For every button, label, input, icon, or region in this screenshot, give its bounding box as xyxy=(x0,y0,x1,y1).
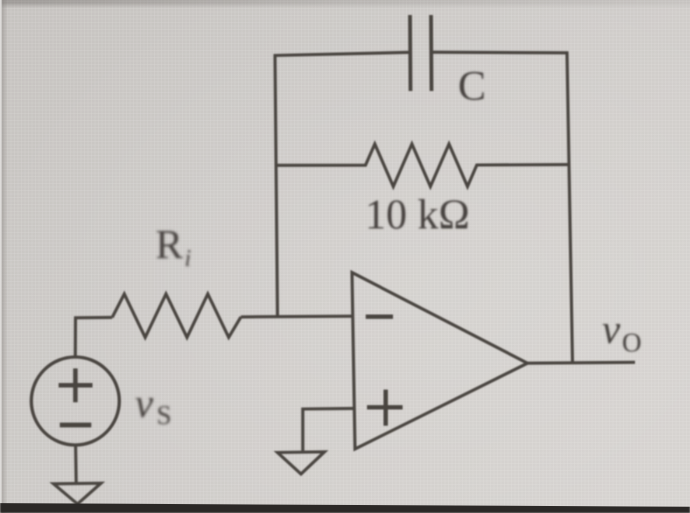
svg-text:O: O xyxy=(622,328,642,358)
wire: ground up and over to non-inverting input xyxy=(303,408,355,450)
svg-text:10 kΩ: 10 kΩ xyxy=(365,193,470,239)
svg-text:v: v xyxy=(135,380,154,426)
label R_i xyxy=(156,221,192,272)
op-amp non-inverting input marker (plus) xyxy=(367,390,403,426)
wire: left feedback branch, node A up to top-left corner xyxy=(275,56,278,317)
vS minus marker xyxy=(60,423,92,428)
wire: vS top to input wire corner xyxy=(74,319,77,358)
ground under vS xyxy=(54,483,102,504)
wire: right feedback branch (vertical) xyxy=(567,53,573,363)
wire: vS bottom to ground xyxy=(74,446,78,484)
resistor R_i (input) xyxy=(112,294,241,337)
label 10 kΩ xyxy=(365,193,470,239)
svg-text:i: i xyxy=(185,246,192,272)
svg-text:S: S xyxy=(157,400,172,430)
wire: R_i to inverting input node A xyxy=(241,315,354,319)
op-amp U1 (triangle) xyxy=(352,273,528,450)
resistor R2 10 kOhm (feedback) with leads xyxy=(277,144,570,187)
voltage source vS (circle) xyxy=(31,357,119,445)
ground at non-inverting input xyxy=(278,452,325,474)
vS plus marker xyxy=(59,368,93,402)
op-amp inverting input marker (minus) xyxy=(366,315,393,319)
wire: op-amp output xyxy=(528,361,636,365)
label C xyxy=(458,64,486,110)
capacitor C (plates) xyxy=(410,15,432,91)
svg-text:v: v xyxy=(602,306,621,352)
wire: source corner to R_i xyxy=(74,316,112,319)
svg-text:R: R xyxy=(156,221,184,267)
svg-text:C: C xyxy=(458,64,486,110)
label vS xyxy=(135,380,172,430)
label vO xyxy=(602,306,642,358)
wire: top feedback run, right of capacitor xyxy=(432,51,569,55)
wire: top feedback run, left of capacitor xyxy=(274,52,410,55)
